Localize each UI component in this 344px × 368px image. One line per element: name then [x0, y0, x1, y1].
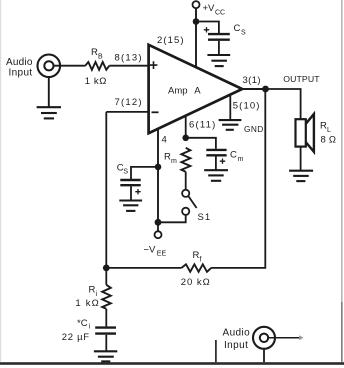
svg-text:A: A — [194, 86, 201, 97]
svg-text:R: R — [320, 121, 327, 132]
node VEE junction — [155, 219, 162, 226]
svg-text:Input: Input — [9, 67, 33, 78]
capacitor CS (supply bypass) — [204, 23, 246, 40]
figure bottom border — [0, 362, 344, 365]
wire J2 right with arrow — [269, 335, 304, 340]
svg-text:5(10): 5(10) — [233, 101, 261, 112]
svg-text:*C: *C — [77, 318, 88, 329]
svg-text:1 kΩ: 1 kΩ — [85, 76, 107, 87]
svg-text:L: L — [327, 127, 331, 134]
wire junction to VEE terminal — [157, 222, 159, 231]
svg-text:S: S — [241, 30, 246, 37]
node feedback junction — [103, 265, 110, 272]
node CS bypass junction — [155, 164, 162, 171]
svg-text:S: S — [123, 169, 128, 176]
svg-text:1 kΩ: 1 kΩ — [75, 298, 100, 309]
wire speaker to ground — [300, 147, 302, 171]
wire pin 5 to ground — [229, 94, 231, 120]
svg-text:−V: −V — [144, 245, 157, 256]
wire stub (bottom figure, left) — [215, 340, 217, 362]
terminal +VCC — [193, 1, 226, 16]
wire pin 4 down — [157, 129, 159, 223]
svg-text:22 µF: 22 µF — [62, 332, 90, 343]
wire CS to ground — [218, 41, 220, 55]
svg-text:R: R — [193, 250, 200, 261]
ground (under input jack) — [37, 107, 61, 118]
resistor Rf — [181, 250, 211, 288]
svg-text:B: B — [98, 54, 103, 61]
node output junction — [262, 86, 269, 93]
svg-text:3(1): 3(1) — [243, 75, 262, 86]
svg-text:4: 4 — [162, 135, 167, 146]
capacitor Ci — [62, 318, 116, 343]
label Audio Input (bottom) — [223, 328, 251, 352]
svg-text:Input: Input — [224, 340, 248, 351]
terminal -VEE — [144, 231, 167, 257]
svg-text:8 Ω: 8 Ω — [321, 135, 337, 146]
svg-text:CC: CC — [215, 10, 225, 17]
svg-text:6(11): 6(11) — [189, 119, 216, 130]
svg-text:7(12): 7(12) — [115, 97, 143, 108]
wire pin 6 down — [185, 116, 187, 138]
node VCC junction — [193, 18, 200, 25]
svg-text:Amp: Amp — [168, 86, 188, 97]
capacitor CS (VEE bypass) — [117, 163, 141, 195]
wire feedback rail left — [106, 267, 181, 269]
wire junction to Cm — [186, 138, 216, 149]
resistor RB — [85, 47, 110, 87]
wire jack to RB — [54, 65, 86, 67]
svg-text:R: R — [91, 47, 98, 58]
svg-text:2(15): 2(15) — [157, 35, 185, 46]
svg-text:R: R — [164, 152, 171, 163]
svg-text:m: m — [238, 156, 244, 163]
resistor Rm — [164, 148, 190, 172]
connector J2 Audio Input jack (bottom) — [253, 327, 275, 349]
ground (under speaker) — [289, 171, 313, 181]
svg-text:R: R — [89, 285, 96, 296]
switch S1 — [182, 190, 211, 223]
ground GND (pin 5) — [219, 120, 264, 134]
wire jack to ground — [48, 77, 50, 107]
wire VCC to op-amp top — [195, 8, 197, 69]
wire Ri to Ci — [105, 268, 107, 285]
wire Cm to ground — [215, 156, 217, 170]
svg-text:OUTPUT: OUTPUT — [283, 74, 320, 84]
wire VCC junction to CS — [196, 22, 219, 34]
ground (under supply CS) — [207, 55, 230, 66]
capacitor Cm — [206, 150, 243, 164]
resistor Ri — [75, 285, 110, 309]
svg-text:GND: GND — [244, 124, 264, 134]
wire output to speaker — [266, 89, 301, 119]
wire RB to op-amp + input — [109, 65, 148, 67]
wire op-amp output — [242, 88, 266, 90]
ground (under VEE bypass CS) — [119, 201, 142, 211]
svg-text:Audio: Audio — [223, 328, 251, 339]
ground (under Ci) — [94, 351, 117, 361]
ground (under Cm) — [204, 170, 228, 181]
label Audio Input (top-left) — [6, 57, 33, 79]
node pin-6 junction — [182, 135, 189, 142]
wire junction to CS bypass — [131, 167, 158, 179]
wire Rm to S1 — [185, 172, 187, 190]
op-amp U1 Amp A — [149, 45, 243, 133]
wire CS bypass to ground — [130, 186, 132, 200]
svg-text:C: C — [234, 23, 241, 34]
svg-text:Audio: Audio — [6, 57, 33, 68]
svg-text:f: f — [200, 257, 202, 264]
svg-text:20 kΩ: 20 kΩ — [181, 277, 211, 288]
svg-text:8(13): 8(13) — [115, 53, 143, 64]
svg-text:S1: S1 — [198, 212, 212, 223]
wire J2 down to border — [263, 349, 265, 362]
wire feedback rail right and up to output — [211, 91, 265, 268]
connector J1 Audio Input jack — [38, 55, 61, 78]
wire S1 to VEE rail — [158, 215, 186, 222]
svg-text:C: C — [230, 150, 237, 161]
svg-text:EE: EE — [157, 251, 167, 258]
speaker RL 8 ohm — [296, 114, 337, 152]
svg-text:m: m — [171, 158, 177, 165]
wire inverting feedback vertical — [105, 112, 107, 268]
svg-text:i: i — [89, 324, 91, 331]
wire inverting input horizontal — [106, 111, 148, 113]
svg-text:+V: +V — [203, 3, 216, 14]
wire Ci to ground — [105, 335, 107, 352]
